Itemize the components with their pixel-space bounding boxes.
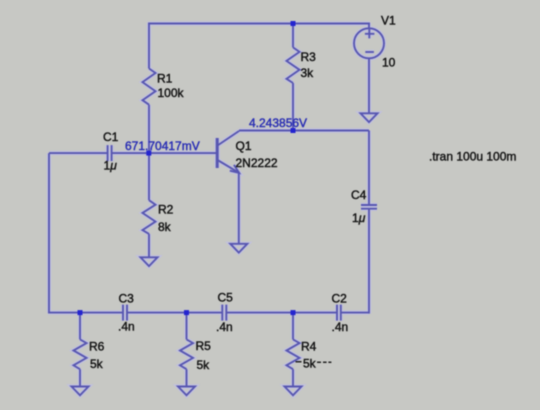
svg-text:Q1: Q1 xyxy=(236,139,252,153)
ground under R6 xyxy=(72,387,89,396)
transistor Q1 emitter arrow xyxy=(230,165,239,173)
wire R3 bottom lead xyxy=(292,83,294,131)
wire C4 bottom lead xyxy=(368,209,370,314)
svg-text:C5: C5 xyxy=(218,290,234,304)
capacitor C4 xyxy=(361,205,377,209)
wire top rail xyxy=(148,23,370,25)
svg-text:3k: 3k xyxy=(301,66,315,80)
svg-text:10: 10 xyxy=(382,55,396,69)
svg-text:2N2222: 2N2222 xyxy=(236,156,278,170)
wire collector down to C4 xyxy=(368,131,370,206)
resistor R6 xyxy=(74,339,87,369)
wire R6 top lead xyxy=(79,313,81,340)
ground under V1 xyxy=(361,113,378,122)
svg-text:1μ: 1μ xyxy=(352,211,366,225)
svg-text:R3: R3 xyxy=(301,50,317,64)
resistor R3 xyxy=(287,47,300,83)
ground under R4 xyxy=(285,387,302,396)
svg-text:R6: R6 xyxy=(89,339,105,353)
V1 minus sign xyxy=(365,51,374,53)
wire left vertical xyxy=(48,153,50,313)
transistor Q1 base bar xyxy=(216,138,219,168)
transistor Q1 emitter diagonal xyxy=(218,160,240,173)
svg-text:1μ: 1μ xyxy=(104,159,118,173)
svg-text:V1: V1 xyxy=(381,14,396,28)
wire bottom rail segment 4 xyxy=(341,312,369,314)
svg-text:C1: C1 xyxy=(103,130,119,144)
wire bottom rail segment 1 xyxy=(48,312,123,314)
svg-text:8k: 8k xyxy=(158,220,172,234)
capacitor C3 xyxy=(123,305,127,321)
resistor R2 xyxy=(143,200,156,234)
wire halo glow xyxy=(48,23,384,396)
ground under Q1 emitter xyxy=(230,244,247,253)
junction node rail R6 xyxy=(78,310,83,315)
svg-text:.4n: .4n xyxy=(332,320,349,334)
capacitor C1 xyxy=(108,145,112,161)
wire R5 bottom lead xyxy=(186,369,188,386)
ground under R5 xyxy=(178,387,195,396)
dashes next to R4 value xyxy=(296,361,332,364)
svg-text:5k: 5k xyxy=(197,358,211,372)
svg-text:.4n: .4n xyxy=(216,320,233,334)
svg-text:R2: R2 xyxy=(158,203,174,217)
junction node rail R4 xyxy=(291,310,296,315)
wire R6 bottom lead xyxy=(79,369,81,386)
wire R1 bottom to node xyxy=(148,105,150,153)
wire bottom rail segment 2 xyxy=(127,312,222,314)
svg-text:C2: C2 xyxy=(332,291,348,305)
svg-text:R1: R1 xyxy=(157,72,173,86)
capacitor C2 xyxy=(337,305,341,321)
wire R5 top lead xyxy=(186,313,188,340)
wire R2 bottom lead xyxy=(148,234,150,257)
junction node top rail R3 xyxy=(291,21,296,26)
wire R4 bottom lead xyxy=(292,369,294,386)
wire R3 top lead xyxy=(292,24,294,48)
resistor R1 xyxy=(143,69,156,105)
junction node collector R3 xyxy=(291,128,296,133)
svg-text:5k: 5k xyxy=(303,356,317,370)
wire R2 top lead xyxy=(148,153,150,200)
wire collector rail xyxy=(239,130,369,132)
resistor R5 xyxy=(180,339,193,369)
svg-text:R4: R4 xyxy=(301,340,317,354)
ground under R2 xyxy=(141,257,158,266)
svg-text:.tran 100u 100m: .tran 100u 100m xyxy=(429,150,516,164)
svg-text:.4n: .4n xyxy=(118,320,135,334)
wire V1 top lead xyxy=(368,23,370,29)
wire bottom rail segment 3 xyxy=(226,312,337,314)
V1 plus sign xyxy=(365,29,375,38)
wire R4 top lead xyxy=(292,313,294,340)
capacitor C5 xyxy=(222,305,226,321)
transistor Q1 collector diagonal xyxy=(218,131,240,146)
wire base left segment xyxy=(49,152,108,154)
svg-text:671.70417mV: 671.70417mV xyxy=(125,139,200,153)
wire C1 to Q1 base xyxy=(112,152,217,154)
svg-text:C3: C3 xyxy=(119,292,135,306)
svg-text:100k: 100k xyxy=(158,86,185,100)
wire emitter down xyxy=(238,173,240,244)
resistor R4 xyxy=(287,339,300,369)
voltage source V1 circle xyxy=(354,28,384,58)
junction node rail R5 xyxy=(184,310,189,315)
junction node at base divider xyxy=(146,151,151,156)
wire R1 top lead xyxy=(148,23,150,69)
svg-text:C4: C4 xyxy=(351,188,367,202)
svg-text:4.243856V: 4.243856V xyxy=(249,116,307,130)
wire V1 bottom lead xyxy=(368,58,370,112)
svg-text:5k: 5k xyxy=(90,357,104,371)
svg-text:R5: R5 xyxy=(196,339,212,353)
